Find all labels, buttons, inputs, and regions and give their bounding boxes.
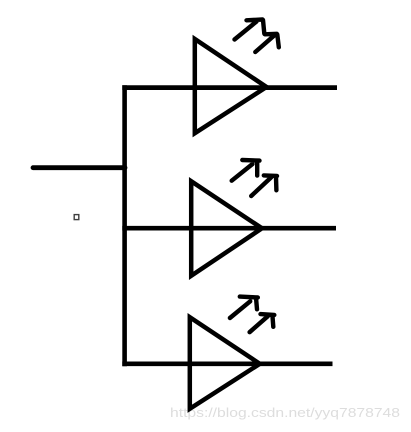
node marker: small square — [74, 215, 79, 220]
wire: branch 2 middle — [122, 226, 336, 231]
LED D3 emission arrow 2 — [250, 314, 275, 332]
LED D3 emission arrow 1 — [230, 297, 258, 318]
wire: branch 3 bottom — [122, 361, 332, 366]
LED D1 triangle — [195, 39, 267, 133]
LED D2 emission arrow 1 — [232, 160, 260, 181]
wire: left input lead — [33, 165, 125, 170]
svg-text:https://blog.csdn.net/yyq78787: https://blog.csdn.net/yyq7878748 — [170, 405, 400, 420]
LED D1 emission arrow 2 — [255, 34, 278, 52]
LED D2 emission arrow 2 — [251, 175, 277, 196]
LED D1 emission arrow 1 — [235, 20, 265, 40]
wire: vertical bus — [122, 85, 127, 366]
LED D2 triangle — [191, 181, 262, 276]
LED D3 triangle — [190, 317, 260, 409]
wire: branch 1 top — [122, 85, 337, 90]
